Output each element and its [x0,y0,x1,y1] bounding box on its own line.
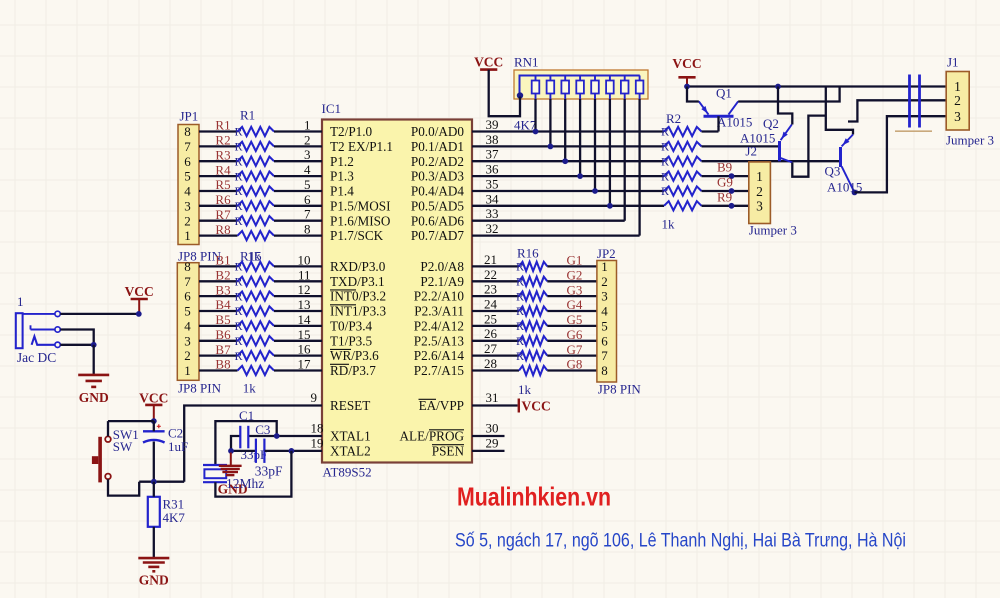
JP1 pin numbers 8..1 [184,124,191,243]
svg-text:6: 6 [184,154,191,169]
wire JP1 pin to resistor R6 [199,205,238,207]
resistor R31 [148,497,160,527]
wire JP8 pin to resistor (net B7) [199,354,238,356]
svg-text:6: 6 [184,289,191,304]
svg-text:R8: R8 [215,222,230,237]
svg-text:4K7: 4K7 [163,510,186,525]
svg-text:P0.1/AD1: P0.1/AD1 [411,139,464,154]
svg-text:RD/P3.7: RD/P3.7 [330,363,376,378]
svg-text:1uF: 1uF [168,439,188,454]
svg-text:14: 14 [298,312,312,327]
RN1 resistor element 4 [576,76,584,100]
resistor R3 [238,157,275,166]
wire resistor R3 to IC pin 3 [274,160,322,162]
svg-text:T1/P3.5: T1/P3.5 [330,333,373,348]
svg-text:VCC: VCC [522,399,551,414]
svg-text:2: 2 [601,274,608,289]
ground symbol crystal [218,453,248,497]
svg-text:R7: R7 [215,207,231,222]
wire JP1 pin to resistor R7 [199,220,238,222]
wire resistor to IC pin 10 [274,265,322,267]
RN1 resistor element 6 [606,76,614,100]
svg-text:P2.7/A15: P2.7/A15 [414,363,465,378]
svg-text:2: 2 [954,93,961,108]
svg-text:21: 21 [484,252,497,267]
svg-text:37: 37 [486,147,500,162]
wire IC pin 39 to resistor bank R2 [472,130,664,132]
svg-text:G1: G1 [567,253,583,268]
svg-text:32: 32 [486,221,499,236]
wire IC pin 32 to RN1 drop [472,234,640,236]
svg-text:P1.4: P1.4 [330,184,354,199]
wire resistor to IC pin 15 [274,340,322,342]
svg-text:R: R [235,140,243,154]
wire C1 right to IC pin 18 [249,435,322,437]
wire JP8 pin to resistor (net B3) [199,295,238,297]
wire resistor to IC pin 17 [274,369,322,371]
svg-text:R: R [235,184,243,198]
svg-text:RESET: RESET [330,398,370,413]
resistor network RN1 body [514,70,648,99]
resistor R1 [238,127,275,136]
svg-text:SW: SW [113,439,133,454]
wire resistor to JP2 pin 7 (net G7) [547,354,597,356]
svg-text:1k: 1k [248,249,262,264]
wire IC pin 21 to resistor [472,265,519,267]
svg-text:1k: 1k [662,217,676,232]
wire C1 left segment [231,436,240,451]
svg-text:VCC: VCC [139,390,168,405]
svg-text:JP1: JP1 [180,109,199,124]
svg-text:G3: G3 [567,282,583,297]
svg-text:INT1/P3.3: INT1/P3.3 [330,304,386,319]
svg-text:1: 1 [954,79,961,94]
svg-text:31: 31 [486,390,499,405]
wire IC pin 22 to resistor [472,280,519,282]
junction pin18 node [274,433,280,439]
svg-text:24: 24 [484,297,498,312]
svg-text:39: 39 [486,117,499,132]
wire resistor to IC pin 14 [274,325,322,327]
junction crystal gnd node [228,448,234,454]
svg-text:9: 9 [311,390,318,405]
svg-text:P2.5/A13: P2.5/A13 [414,333,465,348]
resistor R18 [238,306,275,315]
svg-text:R: R [516,334,524,348]
svg-text:B8: B8 [215,357,230,372]
svg-text:RXD/P3.0: RXD/P3.0 [330,259,386,274]
wire C2 top stub [153,421,155,431]
svg-text:P0.7/AD7: P0.7/AD7 [411,228,465,243]
wire C2 bottom stub [153,442,155,482]
svg-text:1: 1 [304,118,311,133]
wire resistor to JP2 pin 2 (net G2) [547,280,597,282]
wire R31 to ground [153,527,155,558]
svg-text:J2: J2 [745,144,757,159]
wire RN1 element 8 drop to bus line 32 [638,99,640,236]
wire switch bottom run [108,479,139,495]
svg-text:PSEN: PSEN [432,444,465,459]
wire JP1 pin to resistor R2 [199,145,238,147]
svg-text:7: 7 [184,274,191,289]
svg-text:Q3: Q3 [825,164,841,179]
resistor R8 [238,231,275,240]
ground symbol jack [78,375,109,405]
svg-text:B1: B1 [215,253,230,268]
resistor R19 [519,306,547,315]
svg-text:G4: G4 [567,297,583,312]
resistor R6 of right bank [664,186,702,195]
wire RN1 element 5 drop to bus line 35 [594,99,596,191]
resistor R4 of right bank [664,157,702,166]
IC pin name texts port3/port2 [330,259,464,459]
svg-text:A1015: A1015 [717,115,752,130]
svg-text:8: 8 [184,259,191,274]
svg-text:R: R [235,260,243,274]
wire IC pin 30 stub [472,435,505,437]
svg-text:1: 1 [601,259,608,274]
svg-text:P0.3/AD3: P0.3/AD3 [411,169,465,184]
wire reset bottom rail [139,481,184,483]
resistor R22 [519,351,547,360]
svg-text:5: 5 [184,169,191,184]
pin numbers 39-32 [486,117,500,236]
resistor R17 [519,277,547,286]
wire resistor to J2 pin 2 (net G9) [702,190,749,192]
svg-text:R: R [516,304,524,318]
svg-text:WR/P3.6: WR/P3.6 [330,348,379,363]
connector Jac DC symbol [16,311,61,348]
svg-text:Số 5, ngách 17, ngõ 106, Lê Th: Số 5, ngách 17, ngõ 106, Lê Thanh Nghị, … [455,531,906,552]
svg-text:R: R [661,125,669,139]
wire resistor to IC pin 16 [274,354,322,356]
svg-text:R: R [661,140,669,154]
svg-text:P0.2/AD2: P0.2/AD2 [411,154,464,169]
connector J1 body [946,72,969,131]
svg-text:16: 16 [298,342,312,357]
svg-text:XTAL1: XTAL1 [330,429,371,444]
junction jack VCC [136,311,142,317]
resistor R5 of right bank [664,172,702,181]
wire IC pin 36 to resistor bank R2 [472,175,664,177]
svg-text:R: R [235,154,243,168]
svg-text:R: R [516,349,524,363]
wire resistor R2 to IC pin 2 [274,145,322,147]
svg-text:RN1: RN1 [514,54,539,69]
svg-text:EA/VPP: EA/VPP [419,398,464,413]
svg-text:C3: C3 [255,422,270,437]
connector JP2 body [597,261,617,383]
wire J1 pin 2 run [848,100,946,121]
svg-text:R: R [235,289,243,303]
RN1 resistor element 8 [636,76,644,100]
wire resistor to IC pin 13 [274,310,322,312]
svg-text:4: 4 [184,184,191,199]
svg-text:R: R [235,334,243,348]
svg-text:3: 3 [184,333,191,348]
wire resistor to IC pin 11 [274,280,322,282]
wire resistor R5 to IC pin 5 [274,190,322,192]
wire resistor to JP2 pin 5 (net G5) [547,325,597,327]
connector J2 body [749,162,771,224]
svg-text:P2.0/A8: P2.0/A8 [420,259,464,274]
svg-text:B2: B2 [215,268,230,283]
svg-text:3: 3 [954,109,961,124]
junction VCC stem [684,84,690,90]
junction jack ground [91,342,97,348]
svg-text:R1: R1 [240,108,255,123]
svg-text:2: 2 [184,213,191,228]
svg-text:T2/P1.0: T2/P1.0 [330,124,373,139]
svg-text:J1: J1 [947,55,959,70]
svg-text:Jumper 3: Jumper 3 [749,223,797,238]
resistor R23 [519,366,547,375]
wire IC pin 29 stub [472,450,505,452]
wire C3 right to IC pin 19 [265,450,322,452]
resistor R15 [238,262,275,271]
svg-text:R: R [235,125,243,139]
svg-text:12: 12 [298,282,311,297]
wire VCC to RN1 common [489,70,520,117]
junction node line 39 [533,129,539,135]
wire IC pin 33 to RN1 drop [472,220,625,222]
svg-text:36: 36 [486,162,500,177]
wire JP8 pin to resistor (net B8) [199,369,238,371]
svg-text:B7: B7 [215,342,231,357]
transistor Q1 A1015 [699,101,738,116]
wire Q3 collector to J1 pin 3 [855,116,947,192]
svg-text:T2 EX/P1.1: T2 EX/P1.1 [330,139,393,154]
svg-text:VCC: VCC [125,284,154,299]
svg-text:JP8 PIN: JP8 PIN [598,382,642,397]
svg-text:7: 7 [601,348,608,363]
resistor R20 [519,321,547,330]
resistor R19 [238,321,275,330]
svg-text:1: 1 [184,228,191,243]
svg-text:33pF: 33pF [255,464,283,479]
svg-text:R: R [235,275,243,289]
wire resistor to J2 pin 3 (net R9) [702,205,749,207]
svg-text:29: 29 [486,435,499,450]
wire JP8 pin to resistor (net B5) [199,325,238,327]
svg-text:5: 5 [184,304,191,319]
svg-text:Q2: Q2 [763,116,779,131]
junction reset top node [151,418,157,424]
svg-text:35: 35 [486,177,499,192]
wire IC pin 26 to resistor [472,340,519,342]
connector JP8 PIN body [177,263,199,381]
svg-text:Mualinhkien.vn: Mualinhkien.vn [457,482,611,512]
wire R3 to Q2 base [702,145,780,147]
svg-text:P0.6/AD6: P0.6/AD6 [411,213,465,228]
svg-text:4: 4 [184,319,191,334]
resistor R18 [519,292,547,301]
svg-text:7: 7 [304,207,311,222]
wire jack middle contact [60,330,93,345]
wire R2 to Q1 base [702,130,719,132]
svg-text:GND: GND [139,573,169,588]
crystal Y1 12Mhz [203,465,227,482]
svg-text:3: 3 [601,289,608,304]
wire IC pin 38 to resistor bank R2 [472,145,664,147]
svg-text:P1.7/SCK: P1.7/SCK [330,228,384,243]
svg-text:25: 25 [484,311,497,326]
svg-text:5: 5 [601,319,608,334]
svg-text:XTAL2: XTAL2 [330,444,371,459]
IC U1 AT89S52 body [322,120,472,463]
svg-text:38: 38 [486,132,499,147]
RN1 resistor element 2 [547,76,555,100]
svg-text:P1.6/MISO: P1.6/MISO [330,213,390,228]
junction reset bottom node [151,479,157,485]
wire resistor R4 to IC pin 4 [274,175,322,177]
wire node to R31 [153,482,155,497]
svg-text:10: 10 [298,252,311,267]
svg-text:G8: G8 [567,357,583,372]
transistor Q2 A1015 [780,125,793,163]
wire resistor R8 to IC pin 8 [274,234,322,236]
svg-text:R9: R9 [717,189,732,204]
svg-text:Jumper 3: Jumper 3 [946,133,994,148]
svg-text:G2: G2 [567,268,583,283]
wire IC pin 25 to resistor [472,325,519,327]
svg-text:1k: 1k [518,382,532,397]
capacitor C2 [143,424,165,442]
VCC power port jack [125,284,154,314]
wire JP1 pin to resistor R3 [199,160,238,162]
junction node line 38 [548,144,554,150]
svg-text:R16: R16 [517,246,539,261]
svg-text:AT89S52: AT89S52 [323,465,372,480]
svg-text:R: R [235,199,243,213]
resistor R20 [238,336,275,345]
wire crystal bottom loop [215,451,291,497]
svg-text:G9: G9 [717,175,733,190]
svg-text:11: 11 [298,267,311,282]
svg-text:Jac DC: Jac DC [17,350,56,365]
resistor R5 [238,186,275,195]
svg-text:B5: B5 [215,312,230,327]
svg-text:P2.6/A14: P2.6/A14 [414,348,465,363]
wire JP8 pin to resistor (net B6) [199,340,238,342]
svg-text:34: 34 [486,191,500,206]
wire JP1 pin to resistor R8 [199,234,238,236]
RN1 internal bus [520,76,640,96]
svg-text:B6: B6 [215,327,231,342]
svg-text:IC1: IC1 [322,101,342,116]
wire JP1 pin to resistor R5 [199,190,238,192]
resistor R7 of right bank [664,201,702,210]
J1 pin numbers [954,79,961,124]
svg-text:T0/P3.4: T0/P3.4 [330,319,373,334]
wire resistor to JP2 pin 3 (net G3) [547,295,597,297]
wire Q1 emitter to VCC stem [687,87,699,102]
svg-text:TXD/P3.1: TXD/P3.1 [330,274,385,289]
svg-text:13: 13 [298,297,311,312]
svg-text:27: 27 [484,341,498,356]
RN1 resistor element 7 [621,76,629,100]
wire RESET pin 9 run [184,406,322,482]
svg-text:33pF: 33pF [241,447,268,462]
svg-text:R5: R5 [215,177,230,192]
wire JP1 pin to resistor R4 [199,175,238,177]
svg-text:R: R [235,349,243,363]
svg-text:P0.4/AD4: P0.4/AD4 [411,184,465,199]
IC active-low overlines [330,290,464,445]
svg-text:2: 2 [304,132,311,147]
resistor R6 [238,201,275,210]
wire resistor R7 to IC pin 7 [274,220,322,222]
VCC power port reset [139,390,168,421]
wire R4 to Q3 base [702,160,841,162]
resistor R22 [238,366,275,375]
svg-text:30: 30 [486,421,499,436]
wire RN1 element 2 drop to bus line 38 [549,99,551,146]
svg-text:R: R [516,289,524,303]
svg-text:VCC: VCC [474,54,503,69]
svg-text:B4: B4 [215,297,231,312]
RN1 resistor element 1 [532,76,540,100]
IC pin name texts port1/port0 [330,124,464,243]
svg-text:8: 8 [304,222,311,237]
resistor R3 of right bank [664,142,702,151]
svg-text:C1: C1 [239,408,254,423]
junction G9 [729,188,735,194]
svg-text:7: 7 [184,139,191,154]
wire IC pin 24 to resistor [472,310,519,312]
svg-text:R3: R3 [215,147,230,162]
svg-text:R: R [235,319,243,333]
wire JP8 pin to resistor (net B4) [199,310,238,312]
svg-text:JP8 PIN: JP8 PIN [178,380,222,395]
svg-text:R6: R6 [215,192,231,207]
switch SW1 symbol [92,436,111,482]
svg-text:6: 6 [601,333,608,348]
wire RN1 element 7 drop to bus line 33 [624,99,626,221]
svg-text:15: 15 [298,327,311,342]
polarity bars graphic near J1 [910,75,920,128]
svg-text:B3: B3 [215,282,230,297]
svg-text:B9: B9 [717,160,732,175]
resistor R21 [519,336,547,345]
resistor R2 of right bank [664,127,702,136]
wire Q1 base stub [717,116,719,131]
resistor R21 [238,351,275,360]
resistor R16 [238,277,275,286]
svg-text:INT0/P3.2: INT0/P3.2 [330,289,386,304]
wire resistor to JP2 pin 4 (net G4) [547,310,597,312]
svg-text:R4: R4 [215,162,231,177]
svg-text:G7: G7 [567,342,583,357]
resistor R16 [519,262,547,271]
wire C3 left segment [231,450,256,452]
junction B9 [729,173,735,179]
resistor R4 [238,172,275,181]
wire jack ground stem [93,345,95,375]
svg-text:P2.2/A10: P2.2/A10 [414,289,465,304]
ground symbol below R31 [138,558,169,587]
svg-text:VCC: VCC [672,56,701,71]
svg-text:4: 4 [304,162,311,177]
svg-text:R1: R1 [215,118,230,133]
svg-text:8: 8 [184,124,191,139]
resistor R2 [238,142,275,151]
wire resistor to IC pin 12 [274,295,322,297]
VCC power port pin31 [519,399,551,414]
wire VCC drop to Q3 emitter [826,87,853,135]
svg-text:P0.0/AD0: P0.0/AD0 [411,124,465,139]
wire Q1 collector run [738,87,839,102]
